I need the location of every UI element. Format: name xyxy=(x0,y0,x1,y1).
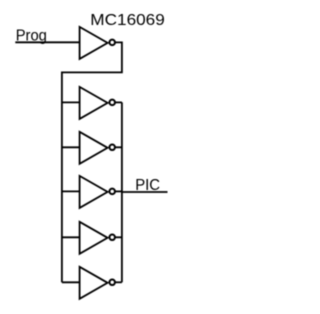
svg-text:PIC: PIC xyxy=(135,177,160,194)
svg-text:MC16069: MC16069 xyxy=(90,12,165,29)
svg-text:Prog: Prog xyxy=(16,27,47,44)
